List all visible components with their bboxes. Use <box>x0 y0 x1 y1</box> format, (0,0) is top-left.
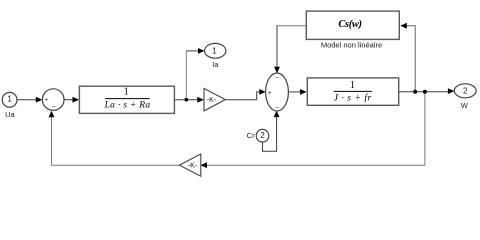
svg-text:Cr: Cr <box>247 131 255 140</box>
svg-text:−: − <box>275 105 279 112</box>
svg-text:2: 2 <box>463 87 468 96</box>
svg-text:J · s + fr: J · s + fr <box>334 92 372 103</box>
svg-text:1: 1 <box>124 87 129 98</box>
svg-text:Ia: Ia <box>212 60 219 69</box>
svg-text:+: + <box>268 90 272 97</box>
svg-text:2: 2 <box>260 131 265 140</box>
svg-text:1: 1 <box>212 46 217 55</box>
svg-text:+: + <box>44 96 48 103</box>
svg-text:1: 1 <box>350 80 355 91</box>
svg-text:Cs(w): Cs(w) <box>338 19 361 30</box>
svg-text:Ua: Ua <box>5 110 15 119</box>
svg-text:W: W <box>461 101 469 110</box>
svg-text:−: − <box>52 104 56 111</box>
svg-text:1: 1 <box>7 95 12 104</box>
svg-text:La · s + Ra: La · s + Ra <box>104 101 151 111</box>
svg-text:-K-: -K- <box>207 97 217 104</box>
svg-text:−: − <box>275 75 279 82</box>
svg-text:Model non linéaire: Model non linéaire <box>321 41 382 50</box>
svg-text:-K-: -K- <box>188 163 198 170</box>
